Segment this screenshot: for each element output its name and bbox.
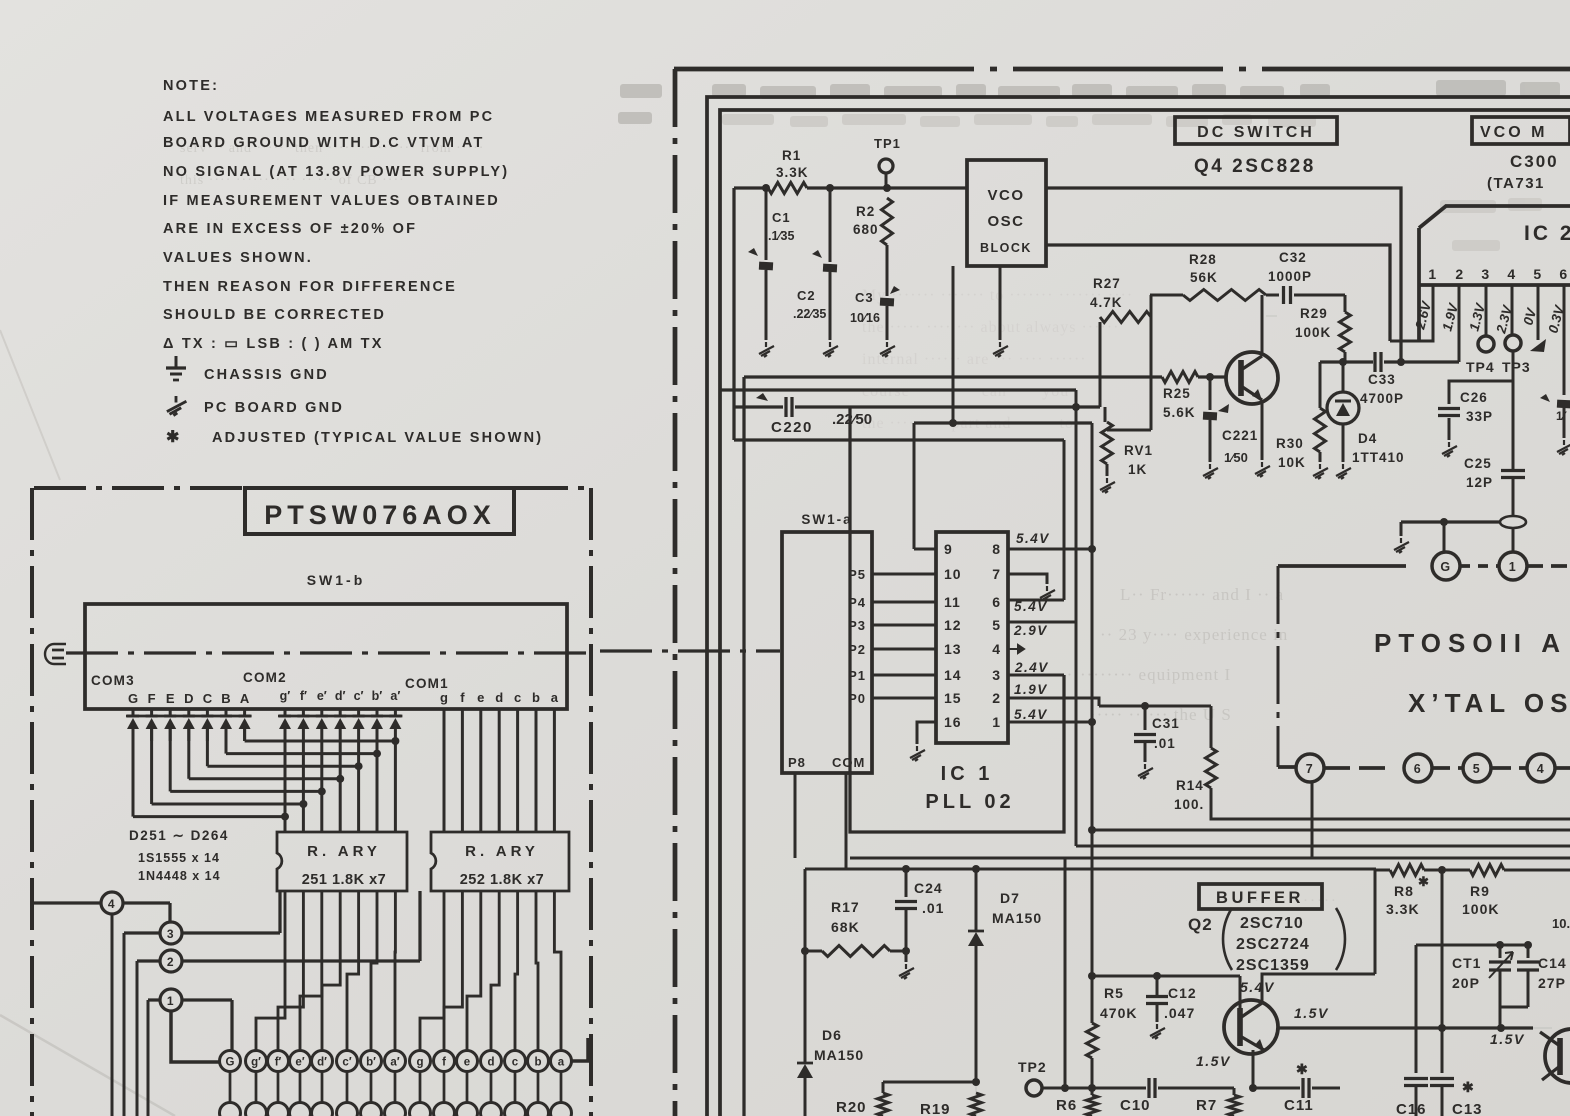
test point TP4 xyxy=(1478,336,1494,352)
svg-text:4: 4 xyxy=(1537,762,1545,776)
wire VCO out y245 to IC2 pin1 xyxy=(1046,245,1390,341)
bus wire y830 xyxy=(1092,829,1570,832)
terminal circle 2 xyxy=(160,950,182,972)
IC2 pin2 wire 1.9V xyxy=(1458,285,1461,362)
resistor R17 68K xyxy=(902,865,910,873)
svg-text:C220: C220 xyxy=(771,419,813,436)
svg-text:27P: 27P xyxy=(1538,975,1566,991)
svg-text:3: 3 xyxy=(992,667,1001,683)
wire hop ellipse xyxy=(1500,516,1526,528)
bus y976 to Q2 base xyxy=(1092,975,1240,978)
wire y706 to R14 xyxy=(1099,705,1211,708)
svg-text:5: 5 xyxy=(992,617,1001,633)
pc board gnd legend symbol xyxy=(167,396,187,416)
svg-text:TP4: TP4 xyxy=(1466,359,1495,375)
svg-text:.22⁄35: .22⁄35 xyxy=(793,307,826,321)
svg-text:the ····· ···· ··· about alway: the ····· ···· ··· about always ······ xyxy=(862,319,1119,336)
svg-text:3: 3 xyxy=(167,927,175,941)
svg-text:7: 7 xyxy=(992,566,1001,582)
svg-text:1.9V: 1.9V xyxy=(1014,682,1048,697)
svg-text:C11: C11 xyxy=(1284,1097,1314,1114)
svg-text:BLOCK: BLOCK xyxy=(980,241,1032,255)
capacitor C13 xyxy=(1430,1077,1454,1080)
node dots on rail xyxy=(762,184,770,192)
output terminal circles row G g' f' e' d' c' b' a' g f e d c b a xyxy=(220,1051,241,1072)
svg-text:251 1.8K x7: 251 1.8K x7 xyxy=(302,872,387,888)
svg-text:D: D xyxy=(184,691,193,706)
svg-text:1S1555 x 14: 1S1555 x 14 xyxy=(138,851,220,865)
diodes D251-D264 under COM3 group xyxy=(126,715,252,718)
svg-text:4: 4 xyxy=(1507,266,1516,282)
svg-text:33P: 33P xyxy=(1466,409,1493,424)
svg-text:680: 680 xyxy=(853,222,879,237)
IC 1 body xyxy=(936,532,1008,743)
capacitor C16 xyxy=(1415,945,1418,1073)
svg-text:SHOULD BE CORRECTED: SHOULD BE CORRECTED xyxy=(163,307,386,323)
outer dash-dot border of main schematic xyxy=(674,67,1570,72)
svg-text:c′: c′ xyxy=(354,689,364,703)
svg-text:9: 9 xyxy=(944,541,953,557)
svg-text:C12: C12 xyxy=(1168,985,1197,1001)
resistor R7 xyxy=(1229,1095,1240,1116)
svg-text:G: G xyxy=(226,1057,235,1069)
svg-text:f′: f′ xyxy=(275,1057,282,1069)
wire COM down xyxy=(845,773,848,869)
svg-text:d′: d′ xyxy=(335,689,346,703)
svg-text:✱: ✱ xyxy=(1296,1061,1309,1077)
svg-text:100K: 100K xyxy=(1295,325,1331,340)
svg-text:R5: R5 xyxy=(1104,985,1124,1001)
svg-text:IC 1: IC 1 xyxy=(941,763,994,785)
IC1 pin1 wire 5.4V xyxy=(1008,721,1092,724)
svg-text:R9: R9 xyxy=(1470,883,1490,899)
VCO block ground xyxy=(999,266,1002,340)
svg-text:f′: f′ xyxy=(300,689,307,703)
svg-text:B: B xyxy=(221,691,230,706)
Q2 collector to R8 node xyxy=(1262,974,1375,1003)
svg-text:e′: e′ xyxy=(295,1057,304,1069)
emitter line y1028 xyxy=(1278,1026,1533,1029)
svg-text:a′: a′ xyxy=(390,689,400,703)
svg-text:ADJUSTED (TYPICAL VALUE SHOWN): ADJUSTED (TYPICAL VALUE SHOWN) xyxy=(212,430,543,446)
shield box rail outer xyxy=(707,97,1570,1116)
svg-text:c: c xyxy=(514,690,521,705)
svg-text:✱: ✱ xyxy=(1462,1079,1475,1095)
wire C33 line xyxy=(1320,360,1373,363)
links between circle rows xyxy=(229,1072,232,1103)
svg-text:5: 5 xyxy=(1473,762,1481,776)
svg-text:MA150: MA150 xyxy=(814,1047,864,1063)
wire C220 line y407 xyxy=(734,405,783,408)
capacitor C10 xyxy=(1147,1078,1150,1098)
svg-text:PTSW076AOX: PTSW076AOX xyxy=(264,500,496,530)
svg-text:C1: C1 xyxy=(772,210,791,225)
svg-text:d′: d′ xyxy=(317,1057,327,1069)
resistor R9 100K xyxy=(1470,865,1504,876)
svg-text:R19: R19 xyxy=(920,1101,951,1116)
svg-text:b′: b′ xyxy=(372,689,383,703)
svg-text:IC 2: IC 2 xyxy=(1524,222,1570,245)
label box PTSW076AOX xyxy=(245,488,514,534)
svg-text:R. ARY: R. ARY xyxy=(465,843,539,860)
svg-text:ALL VOLTAGES MEASURED FROM PC: ALL VOLTAGES MEASURED FROM PC xyxy=(163,109,494,125)
svg-text:·· 23 y···· experience in: ·· 23 y···· experience in xyxy=(1100,625,1288,644)
Q4 emitter ground xyxy=(1261,400,1264,460)
shield box rail inner xyxy=(720,110,1570,1116)
svg-text:P2: P2 xyxy=(848,642,866,657)
svg-text:4: 4 xyxy=(108,897,116,911)
svg-text:g: g xyxy=(416,1057,423,1069)
svg-text:R30: R30 xyxy=(1276,436,1304,451)
unit bottom terminal row 7 6 5 4 xyxy=(1278,765,1296,769)
svg-text:R28: R28 xyxy=(1189,252,1217,267)
IC 2 body outline xyxy=(1419,206,1570,228)
diode D4 1TT410 xyxy=(1342,362,1345,392)
VCO M label box xyxy=(1472,117,1570,144)
svg-text:g′: g′ xyxy=(251,1057,261,1069)
second terminal circle row at bottom edge xyxy=(220,1103,241,1116)
svg-text:VALUES SHOWN.: VALUES SHOWN. xyxy=(163,250,313,266)
svg-text:2: 2 xyxy=(167,955,175,969)
svg-text:2SC710: 2SC710 xyxy=(1240,915,1304,932)
svg-text:5.4V: 5.4V xyxy=(1016,531,1050,546)
COM1 column verticals into R.ARY 252 xyxy=(443,709,446,832)
svg-text:C300: C300 xyxy=(1510,152,1559,171)
svg-text:A: A xyxy=(240,691,250,706)
wire P8 down xyxy=(794,773,797,858)
resistor array R.ARY 252 1.8Kx7 xyxy=(431,832,569,891)
svg-text:MA150: MA150 xyxy=(992,910,1042,926)
wire y423 from VCO xyxy=(914,421,1092,424)
svg-text:a′: a′ xyxy=(390,1057,399,1069)
DC SWITCH label box xyxy=(1175,117,1337,144)
svg-text:R27: R27 xyxy=(1093,276,1121,291)
R.ARY 252 output fan to circles xyxy=(420,891,444,1051)
bus wire y869 xyxy=(805,868,1376,871)
IC2 pin3 wire 1.3V to TP4 xyxy=(1485,285,1488,336)
svg-text:15: 15 xyxy=(944,690,962,706)
svg-text:6: 6 xyxy=(1414,762,1422,776)
capacitor C24 .01 xyxy=(905,869,908,897)
capacitor C2 electrolytic xyxy=(829,188,832,262)
wire y440 to IC1 pin9 and pin6 xyxy=(734,438,914,441)
svg-text:1: 1 xyxy=(1428,266,1437,282)
capacitor C221 1/50 electrolytic xyxy=(1209,377,1212,410)
svg-text:R. ARY: R. ARY xyxy=(307,843,381,860)
svg-text:2: 2 xyxy=(992,690,1001,706)
svg-text:CT1: CT1 xyxy=(1452,955,1481,971)
svg-text:1.5V: 1.5V xyxy=(1196,1053,1231,1069)
terminal circle 3 xyxy=(160,922,182,944)
svg-text:C33: C33 xyxy=(1368,372,1396,387)
wire from bus to TP2 line xyxy=(1064,858,1067,1088)
channel selector dash-dot line to P2 xyxy=(66,651,591,654)
Q2 emitter down xyxy=(1252,1050,1255,1088)
wire VCO out y188 to C33 node xyxy=(1046,188,1401,364)
svg-text:C16: C16 xyxy=(1396,1101,1427,1116)
svg-text:d: d xyxy=(487,1057,494,1069)
svg-text:R25: R25 xyxy=(1163,386,1191,401)
svg-text:2.9V: 2.9V xyxy=(1013,623,1048,638)
svg-text:5.4V: 5.4V xyxy=(1014,599,1048,614)
svg-text:VCO M: VCO M xyxy=(1480,124,1547,141)
svg-text:G: G xyxy=(128,691,138,706)
capacitor C220 .22/50 xyxy=(784,397,787,417)
BUFFER label box xyxy=(1199,884,1322,909)
svg-text:··········· equipment I: ··········· equipment I xyxy=(1060,665,1231,684)
wire R8 node down to C13 xyxy=(1441,870,1444,1073)
resistor R25 5.6K xyxy=(1162,372,1198,383)
svg-text:PTOSOII A: PTOSOII A xyxy=(1374,628,1567,658)
svg-text:3: 3 xyxy=(1481,266,1490,282)
IC1 pin3 wire 2.4V xyxy=(1008,674,1064,677)
dash-dot border of PTSW076AOX block xyxy=(30,488,34,1116)
capacitor C26 33P xyxy=(1512,351,1515,470)
svg-text:a: a xyxy=(551,690,559,705)
svg-text:5.6K: 5.6K xyxy=(1163,405,1196,420)
svg-text:13: 13 xyxy=(944,641,962,657)
svg-text:COM2: COM2 xyxy=(243,670,287,685)
svg-text:X’TAL OS: X’TAL OS xyxy=(1408,688,1570,718)
svg-text:5: 5 xyxy=(1533,266,1542,282)
svg-text:.1⁄35: .1⁄35 xyxy=(768,229,794,243)
svg-text:D4: D4 xyxy=(1358,431,1377,446)
wire R27/R28 junction down to base line xyxy=(1150,295,1153,430)
R.ARY 251 output fan to circles xyxy=(256,891,285,1051)
IC2 pin6 wire 0.3V xyxy=(1563,285,1566,395)
svg-text:COM3: COM3 xyxy=(91,673,135,688)
svg-text:6: 6 xyxy=(992,594,1001,610)
svg-text:Q4 2SC828: Q4 2SC828 xyxy=(1194,156,1316,177)
svg-text:4700P: 4700P xyxy=(1360,391,1404,406)
svg-text:b′: b′ xyxy=(366,1057,376,1069)
resistor R14 100 xyxy=(1210,706,1213,748)
svg-text:VCO: VCO xyxy=(987,187,1024,204)
wire varicap loop to IC1 pin3 xyxy=(850,407,1064,832)
resistor R19 xyxy=(971,1093,982,1116)
wire rail x744 base-line down xyxy=(742,377,745,1116)
IC1 pin2 wire 1.9V xyxy=(1008,698,1099,706)
svg-text:1⁄50: 1⁄50 xyxy=(1224,450,1248,465)
diode D6 MA150 xyxy=(804,869,807,1062)
resistor R8 3.3K xyxy=(1390,865,1424,876)
IC1 pin5 wire 2.9V xyxy=(1008,621,1076,624)
svg-text:C24: C24 xyxy=(914,880,943,896)
svg-text:PC BOARD GND: PC BOARD GND xyxy=(204,400,344,416)
svg-text:3.3K: 3.3K xyxy=(776,165,809,180)
resistor array R.ARY 251 1.8Kx7 xyxy=(277,832,407,891)
svg-text:G: G xyxy=(1440,560,1451,574)
test point TP3 xyxy=(1505,335,1521,351)
svg-text:TP2: TP2 xyxy=(1018,1059,1047,1075)
svg-text:1.5V: 1.5V xyxy=(1490,1031,1525,1047)
rail x734 with C220 branch xyxy=(732,188,735,440)
svg-text:C25: C25 xyxy=(1464,456,1492,471)
svg-text:P5: P5 xyxy=(848,567,866,582)
transistor Q2 xyxy=(1224,1000,1278,1054)
svg-text:2SC2724: 2SC2724 xyxy=(1236,936,1310,953)
resistor R2 xyxy=(882,198,893,245)
svg-text:f: f xyxy=(442,1057,446,1069)
trimmer CT1 20P and C14 27P branch xyxy=(1416,944,1528,947)
svg-text:.047: .047 xyxy=(1164,1005,1195,1021)
electrolytic cap at pin6 xyxy=(1540,394,1550,402)
svg-text:C13: C13 xyxy=(1452,1101,1483,1116)
capacitor C25 12P xyxy=(1501,469,1525,472)
svg-text:✱: ✱ xyxy=(1418,874,1430,889)
wire from terminal 7 down xyxy=(1311,782,1314,858)
svg-text:5.4V: 5.4V xyxy=(1014,707,1048,722)
svg-text:D251 ∼ D264: D251 ∼ D264 xyxy=(129,828,229,843)
svg-text:C31: C31 xyxy=(1152,716,1180,731)
svg-text:1.5V: 1.5V xyxy=(1294,1005,1329,1021)
IC1 pin7 wire to gnd xyxy=(1008,574,1047,584)
matrix stair wires COM3 to COM2 columns xyxy=(243,729,246,741)
VCO block lower-left wire to SW1-a rail xyxy=(952,266,955,423)
svg-text:1N4448 x 14: 1N4448 x 14 xyxy=(138,869,221,883)
rail from IC1 pin8/pin1 down xyxy=(1091,423,1094,976)
IC1 pin16 ground xyxy=(917,722,936,744)
resistor R30 10K xyxy=(1319,362,1322,408)
svg-text:R8: R8 xyxy=(1394,883,1414,899)
wire base line y377 xyxy=(744,375,1162,378)
svg-text:11: 11 xyxy=(944,594,961,610)
svg-text:g: g xyxy=(440,690,448,705)
svg-text:COM: COM xyxy=(832,755,865,770)
svg-text:C221: C221 xyxy=(1222,428,1258,443)
svg-text:C14: C14 xyxy=(1538,955,1567,971)
wire from circle a to border xyxy=(572,1038,588,1061)
svg-text:1K: 1K xyxy=(1128,462,1147,477)
resistor R29 100K xyxy=(1344,295,1347,312)
svg-text:c: c xyxy=(512,1057,519,1069)
svg-text:R6: R6 xyxy=(1056,1097,1077,1114)
svg-text:e: e xyxy=(464,1057,470,1069)
svg-text:252 1.8K x7: 252 1.8K x7 xyxy=(460,872,545,888)
IC1 pin8 wire 5.4V xyxy=(1008,548,1092,551)
svg-text:NOTE:: NOTE: xyxy=(163,78,219,94)
diodes under COM2 group xyxy=(278,715,402,718)
resistor R5 470K xyxy=(1088,972,1096,980)
svg-text:BOARD GROUND WITH D.C VTVM AT: BOARD GROUND WITH D.C VTVM AT xyxy=(163,135,485,151)
svg-text:(TA731: (TA731 xyxy=(1487,175,1545,192)
svg-text:R7: R7 xyxy=(1196,1097,1217,1114)
svg-text:P3: P3 xyxy=(848,618,866,633)
svg-text:f: f xyxy=(460,690,465,705)
svg-text:R17: R17 xyxy=(831,899,860,915)
svg-text:68K: 68K xyxy=(831,919,860,935)
svg-text:Δ TX : ▭ LSB : ( ) AM TX: Δ TX : ▭ LSB : ( ) AM TX xyxy=(163,336,384,352)
svg-text:TP3: TP3 xyxy=(1502,359,1531,375)
svg-text:C26: C26 xyxy=(1460,390,1488,405)
capacitor C1 electrolytic xyxy=(765,188,768,260)
svg-text:1: 1 xyxy=(167,994,175,1008)
svg-text:D7: D7 xyxy=(1000,890,1020,906)
PLL unit terminal 1 xyxy=(1499,552,1527,580)
svg-text:✱: ✱ xyxy=(166,429,181,446)
resistor R6 xyxy=(1087,1095,1098,1116)
wire R20 R19 node xyxy=(883,1081,976,1084)
svg-text:ARE IN EXCESS OF ±20% OF: ARE IN EXCESS OF ±20% OF xyxy=(163,221,417,237)
IC2 pin1 wire and 2.6V cell xyxy=(1390,285,1433,341)
capacitor C11 xyxy=(1301,1078,1304,1098)
svg-text:2: 2 xyxy=(1455,266,1464,282)
svg-text:C: C xyxy=(203,691,213,706)
transistor Q4 2SC828 xyxy=(1226,352,1278,404)
capacitor C31 .01 xyxy=(1144,706,1147,730)
wire below terminal 4 xyxy=(111,914,114,1116)
svg-text:.22⁄50: .22⁄50 xyxy=(832,411,872,428)
svg-text:4: 4 xyxy=(992,641,1001,657)
svg-text:1TT410: 1TT410 xyxy=(1352,450,1405,465)
svg-text:2SC1359: 2SC1359 xyxy=(1236,957,1310,974)
diode D7 MA150 xyxy=(975,869,978,930)
wire to IC2 pin2 xyxy=(1458,287,1461,362)
capacitor C33 4700P xyxy=(1373,352,1376,372)
svg-text:TP1: TP1 xyxy=(874,136,901,151)
svg-text:10: 10 xyxy=(944,566,962,582)
svg-text:CHASSIS GND: CHASSIS GND xyxy=(204,367,329,383)
svg-text:C32: C32 xyxy=(1279,250,1307,265)
wire main rail y188 xyxy=(734,186,768,189)
svg-text:C10: C10 xyxy=(1120,1097,1151,1114)
svg-text:NO SIGNAL (AT 13.8V POWER SUPP: NO SIGNAL (AT 13.8V POWER SUPPLY) xyxy=(163,164,509,180)
svg-text:L·· Fr······ and I ·· a: L·· Fr······ and I ·· a xyxy=(1120,585,1284,604)
resistor R20 xyxy=(882,1082,885,1093)
svg-text:7: 7 xyxy=(1306,762,1314,776)
svg-text:c′: c′ xyxy=(342,1057,351,1069)
svg-text:3.3K: 3.3K xyxy=(1386,901,1420,917)
svg-text:b: b xyxy=(532,690,540,705)
svg-text:F: F xyxy=(148,691,156,706)
svg-text:R2: R2 xyxy=(856,204,875,219)
svg-text:6: 6 xyxy=(1559,266,1568,282)
svg-text:14: 14 xyxy=(944,667,962,683)
resistor R1 xyxy=(768,183,807,194)
terminal circle 1 xyxy=(160,989,182,1011)
svg-text:12P: 12P xyxy=(1466,475,1493,490)
svg-text:D6: D6 xyxy=(822,1027,842,1043)
wire y522 with pc gnd branch xyxy=(1401,520,1444,523)
svg-text:e′: e′ xyxy=(317,689,327,703)
svg-text:R20: R20 xyxy=(836,1099,867,1116)
svg-text:d: d xyxy=(495,690,503,705)
svg-text:56K: 56K xyxy=(1190,270,1218,285)
svg-text:10⁄16: 10⁄16 xyxy=(850,311,880,325)
COM2 column verticals into R.ARY 251 xyxy=(284,741,287,832)
connector plug at channel line xyxy=(45,644,66,664)
svg-text:10K: 10K xyxy=(1278,455,1306,470)
IC1 pin4 arrow xyxy=(1008,645,1024,653)
svg-text:470K: 470K xyxy=(1100,1005,1137,1021)
svg-text:Q2: Q2 xyxy=(1188,915,1213,934)
chassis gnd legend symbol xyxy=(166,356,186,380)
VCO OSC BLOCK box xyxy=(967,160,1046,266)
svg-text:1000P: 1000P xyxy=(1268,269,1312,284)
svg-text:.01: .01 xyxy=(1154,736,1176,751)
svg-text:SW1-b: SW1-b xyxy=(307,572,366,588)
svg-text:P1: P1 xyxy=(848,668,866,683)
IC2 pin5 wire 0V chassis gnd xyxy=(1537,285,1540,340)
switch SW1-b body xyxy=(85,604,567,709)
wire y390 to pin5 rail xyxy=(720,388,1076,391)
svg-text:SW1-a: SW1-a xyxy=(801,512,852,527)
capacitor C12 .047 xyxy=(1146,995,1168,998)
svg-text:THEN REASON FOR DIFFERENCE: THEN REASON FOR DIFFERENCE xyxy=(163,279,457,295)
variable resistor RV1 1K xyxy=(1104,407,1107,422)
svg-text:C2: C2 xyxy=(797,288,816,303)
svg-text:1: 1 xyxy=(1509,560,1517,574)
